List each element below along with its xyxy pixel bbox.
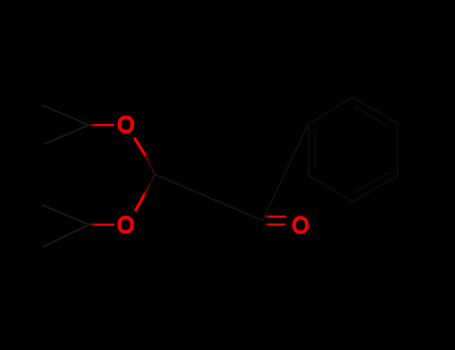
O3 label ketone: [294, 218, 307, 232]
O2 label bottom-left: [119, 218, 132, 232]
benzene ring edge B-C: [353, 98, 398, 124]
benzene ring edge F-A: [308, 124, 310, 176]
benzene ring edge E-F: [309, 176, 354, 202]
bond CH-O1 (red) top: [89, 124, 114, 126]
aromatic inner line F-A: [315, 129, 317, 170]
bond CH3b-CH top isopropyl: [45, 125, 89, 144]
bond acetal C - carbonyl C: [155, 175, 263, 221]
aromatic inner line B-C: [354, 106, 390, 127]
O1 label top-left: [120, 117, 133, 131]
bond CH3a-CH top isopropyl: [43, 106, 89, 126]
C=O double bond upper line (red): [265, 215, 287, 217]
bond O1-acetalC dark fading part: [146, 156, 156, 175]
bond CH3a-CH bottom isopropyl: [43, 205, 89, 225]
benzene ring edge A-B: [309, 98, 354, 124]
aromatic inner line D-E: [353, 172, 390, 193]
bond CH-O2 (red) bottom: [89, 223, 114, 225]
bond O2-acetalC dark fading part: [145, 175, 155, 194]
benzene ring edge D-E: [353, 176, 398, 202]
bond carbonyl C - ring A: [263, 124, 309, 221]
bond CH3b-CH bottom isopropyl: [43, 225, 89, 247]
C=O double bond lower line (red): [265, 223, 286, 225]
bond O1-acetalC red part: [134, 138, 146, 157]
bond O2-acetalC red part: [135, 193, 145, 212]
benzene ring edge C-D: [397, 124, 399, 176]
